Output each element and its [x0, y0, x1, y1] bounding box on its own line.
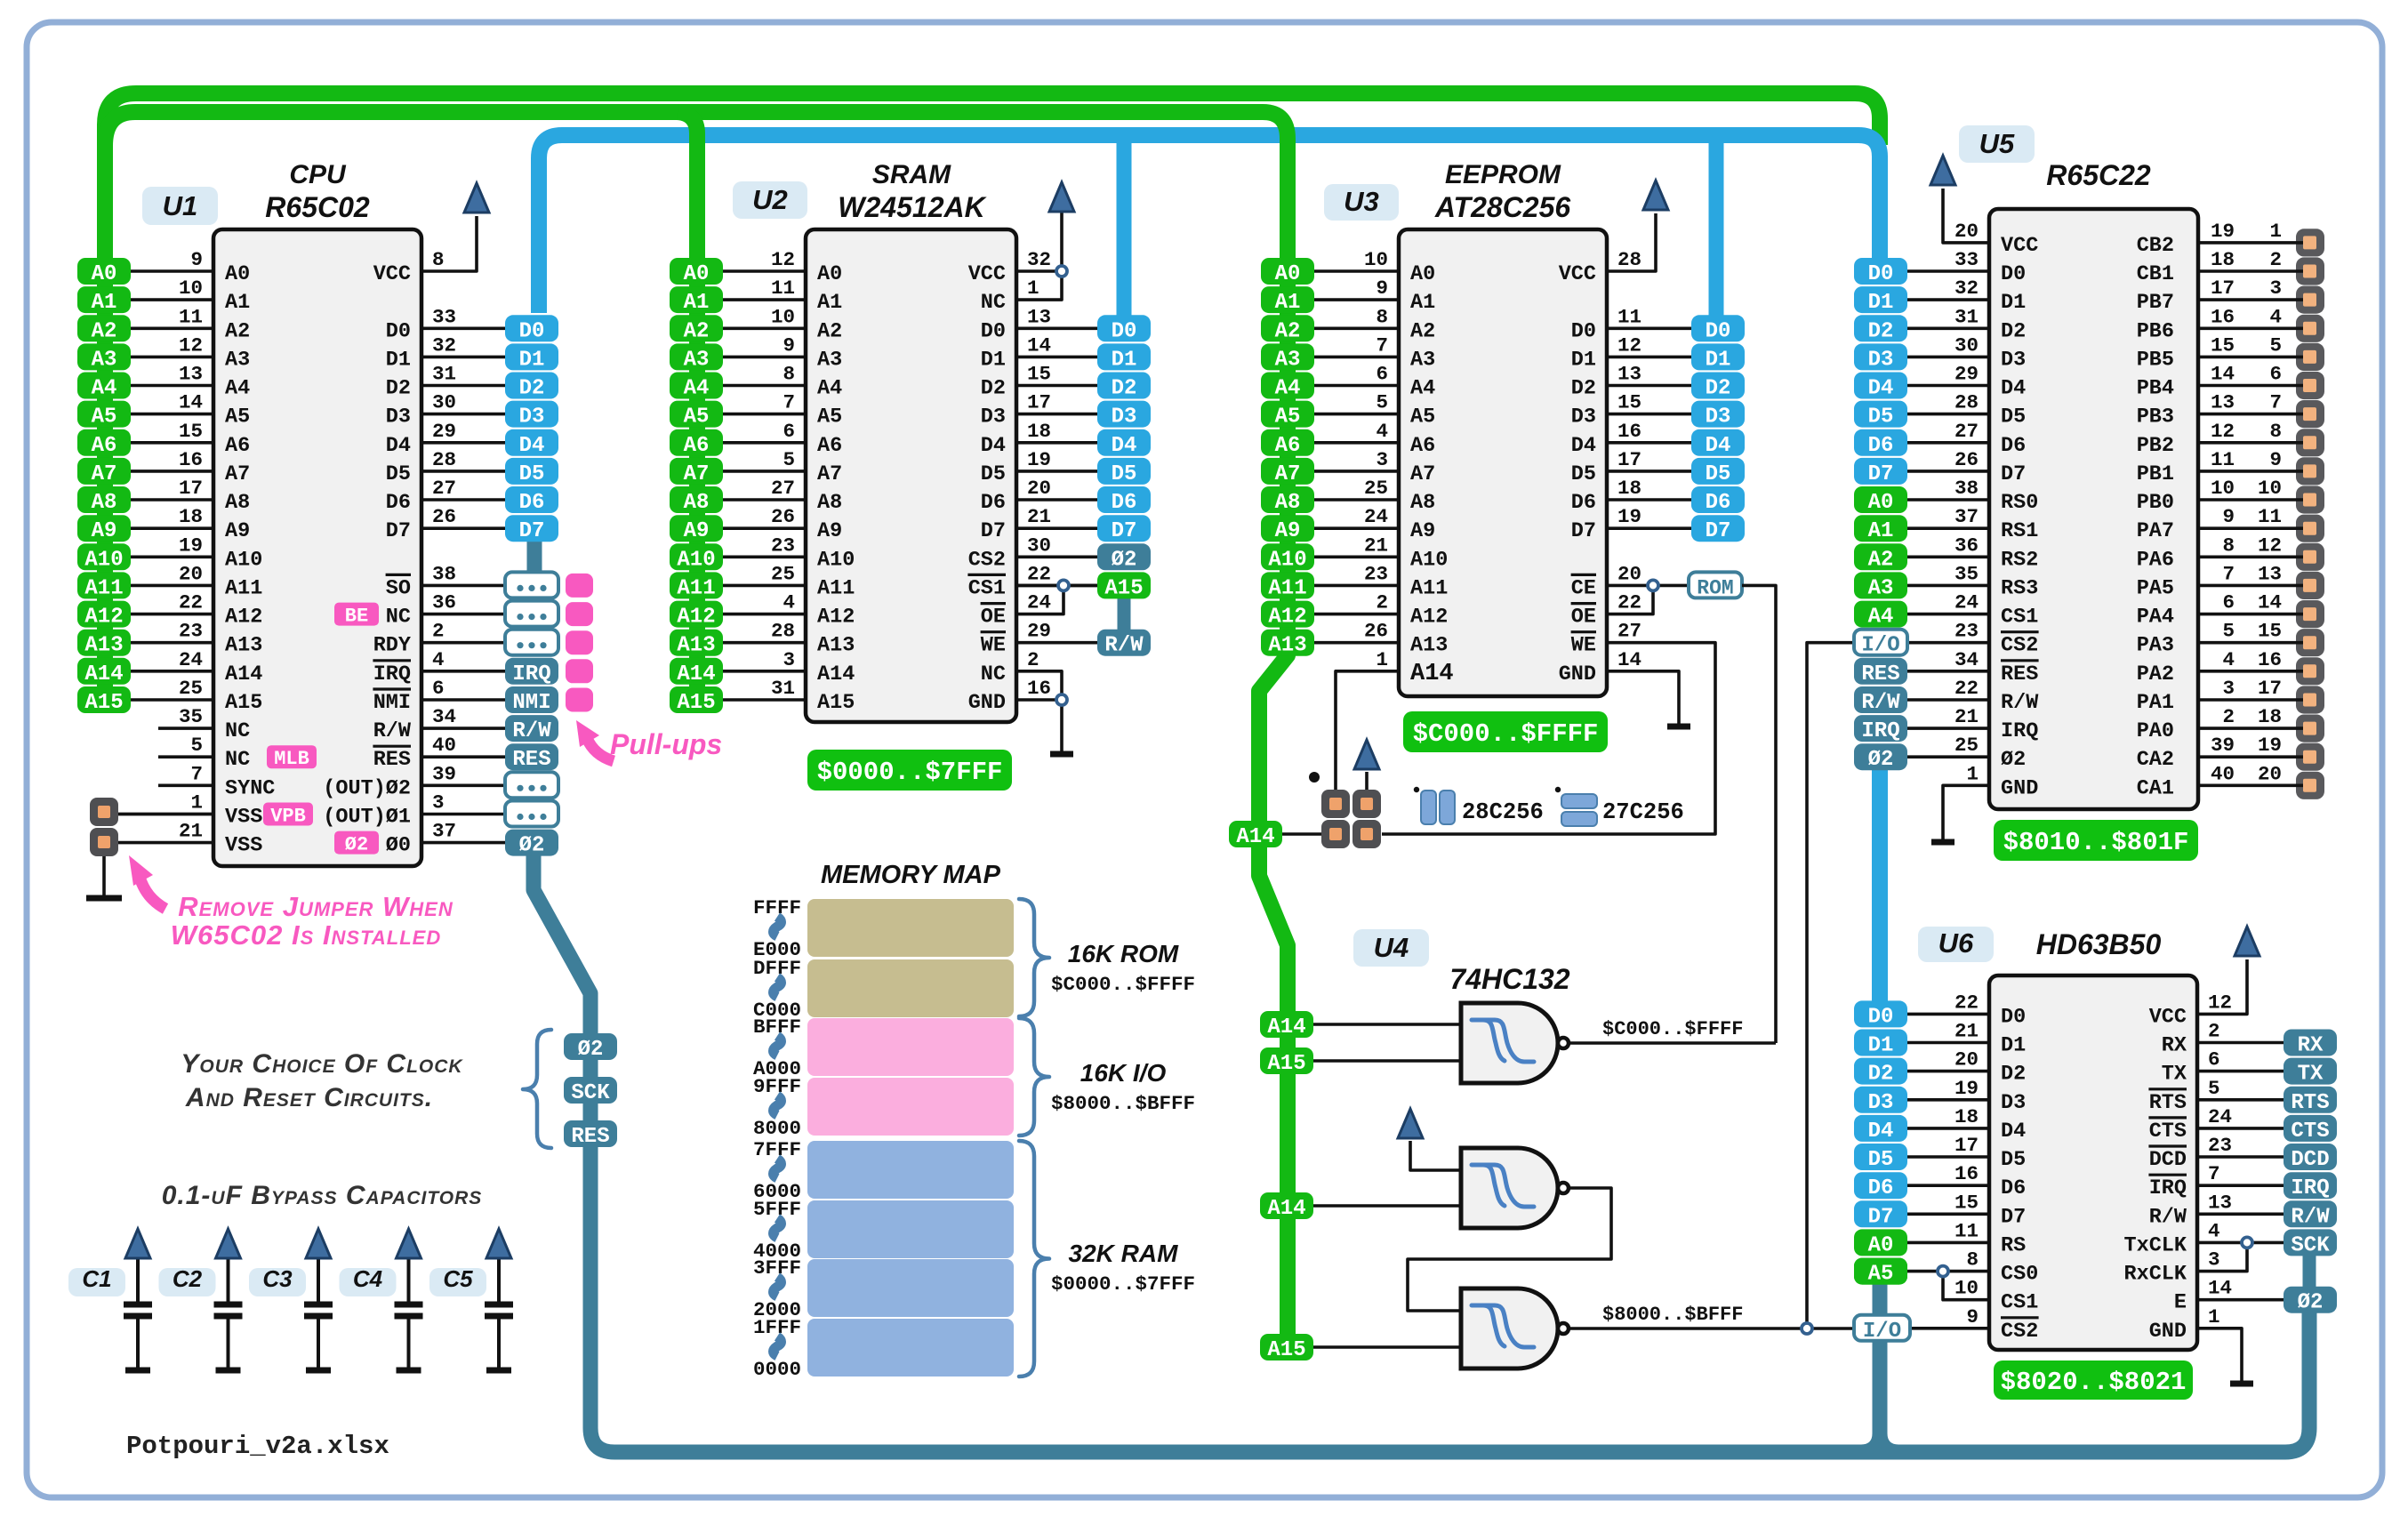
svg-text:CB1: CB1 — [2137, 262, 2174, 286]
svg-text:A8: A8 — [1410, 491, 1435, 515]
svg-text:13: 13 — [179, 363, 203, 386]
power arrow VCC (C1) — [125, 1229, 150, 1258]
U3 pin 23 A11 (left row) — [1314, 562, 1448, 600]
svg-text:PA7: PA7 — [2137, 519, 2174, 543]
node A14 tag (U4B input) — [1260, 1192, 1313, 1221]
U1 pin 22 A12 (left row) — [131, 591, 262, 630]
svg-text:A2: A2 — [225, 319, 250, 343]
U6 CS2 wire to I/O tag — [1910, 1327, 1989, 1330]
U2 pin 3 A14 (left row) — [723, 648, 855, 686]
U5 pin 9 PA7 / connector pin 11 — [2137, 505, 2316, 543]
svg-text:D4: D4 — [1868, 377, 1894, 401]
svg-text:5: 5 — [2222, 620, 2235, 643]
U5 pin 20 VCC (left row) — [1954, 220, 2038, 258]
svg-text:D0: D0 — [519, 319, 545, 343]
svg-text:18: 18 — [179, 505, 203, 528]
node A1 tag (U5) — [1854, 515, 1907, 543]
node D1 tag (U6) — [1854, 1030, 1907, 1058]
node O2 tag (clock section) — [564, 1033, 617, 1062]
svg-text:4: 4 — [783, 591, 795, 614]
svg-text:24: 24 — [179, 648, 203, 671]
svg-text:12: 12 — [771, 248, 795, 271]
U1 pin 11 A2 (left row) — [131, 305, 250, 343]
wire: data bus drop to U2 D0-D7 — [1117, 135, 1132, 320]
svg-text:38: 38 — [432, 562, 456, 585]
U2 pin 25 A11 (left row) — [723, 562, 855, 600]
U5 VCC net wire — [1943, 189, 1989, 243]
svg-text:FFFF: FFFF — [753, 896, 801, 919]
svg-text:A0: A0 — [225, 262, 250, 286]
U1 pin 32 D1 (right row) — [386, 333, 505, 372]
U2 pin 5 A7 (left row) — [723, 448, 842, 486]
svg-text:A15: A15 — [1267, 1052, 1305, 1076]
svg-text:19: 19 — [1027, 448, 1051, 471]
U5 pin 39 CA2 / connector pin 19 — [2137, 734, 2316, 772]
svg-text:9: 9 — [1966, 1305, 1979, 1328]
svg-text:19: 19 — [179, 534, 203, 557]
node A5 tag (U3) — [1261, 401, 1314, 429]
svg-text:36: 36 — [1954, 534, 1979, 557]
svg-text:3: 3 — [2208, 1248, 2220, 1272]
svg-text:20: 20 — [1027, 477, 1051, 500]
svg-text:A15: A15 — [84, 691, 123, 715]
node D7 tag (U2) — [1097, 515, 1151, 543]
svg-text:9: 9 — [2269, 448, 2282, 471]
svg-text:A6: A6 — [684, 434, 710, 458]
svg-text:VSS: VSS — [225, 806, 262, 830]
svg-text:D2: D2 — [386, 377, 411, 401]
power arrow VCC (U6) — [2235, 927, 2260, 956]
node A5 tag (U6) — [1854, 1258, 1907, 1287]
svg-text:D5: D5 — [1112, 462, 1137, 486]
U1 pin 39 (OUT)O2 (right row) — [323, 762, 505, 800]
U5 pin 23 CS2 (left row) — [1907, 620, 2039, 658]
U6 pin 22 D0 (left row) — [1907, 991, 2026, 1029]
svg-text:D4: D4 — [981, 434, 1006, 458]
svg-text:33: 33 — [1954, 248, 1979, 271]
svg-text:CA2: CA2 — [2137, 748, 2174, 772]
U5 pin 40 CA1 / connector pin 20 — [2137, 762, 2316, 800]
U5 pin 8 PA6 / connector pin 12 — [2137, 534, 2316, 572]
annotation arrow (pink) pointing to J1 — [140, 877, 165, 909]
gate U4A NAND 74HC132 — [1461, 1003, 1558, 1083]
svg-text:11: 11 — [2211, 448, 2235, 471]
memory map block DFFF-C000 — [807, 959, 1014, 1017]
svg-text:19: 19 — [1954, 1077, 1979, 1100]
gate U4A input wires — [1313, 1023, 1461, 1026]
svg-text:34: 34 — [1954, 648, 1979, 671]
U5 GND net wire — [1943, 785, 1989, 839]
svg-text:34: 34 — [432, 705, 456, 728]
U5 pin 6 PA4 / connector pin 14 — [2137, 591, 2316, 630]
option icon 28C256 (jumper vertical) — [1414, 787, 1419, 792]
node A6 tag (U3) — [1261, 429, 1314, 458]
U6 pin 23 DCD (right row) — [2148, 1134, 2284, 1172]
svg-text:25: 25 — [1364, 477, 1388, 500]
svg-text:D3: D3 — [1868, 348, 1894, 372]
U2 pin 32 VCC (right row) — [968, 248, 1051, 286]
svg-text:9: 9 — [190, 248, 203, 271]
svg-text:D6: D6 — [1868, 1176, 1894, 1200]
U2 reference designator label — [733, 181, 807, 219]
svg-text:$0000..$7FFF: $0000..$7FFF — [1051, 1272, 1195, 1296]
U3 address range value label — [1403, 711, 1608, 752]
node A15 tag (U1) — [77, 686, 131, 715]
svg-text:A15: A15 — [1104, 576, 1143, 600]
svg-text:D6: D6 — [386, 491, 411, 515]
svg-text:A3: A3 — [684, 348, 710, 372]
node A7 tag (U3) — [1261, 458, 1314, 486]
U2 pin 16 GND (right row) — [968, 677, 1051, 715]
junction on U2 VCC net — [1056, 266, 1067, 277]
U3 VCC net wire — [1607, 213, 1656, 271]
U3 pin 7 A3 (left row) — [1314, 333, 1435, 372]
U2 pin 17 D3 (right row) — [981, 391, 1097, 429]
node D3 tag (U2) — [1097, 401, 1151, 429]
svg-text:20: 20 — [1617, 562, 1641, 585]
U1 pin 5 NC (left row) — [158, 734, 250, 772]
svg-text:PA1: PA1 — [2137, 691, 2174, 715]
svg-text:13: 13 — [1617, 363, 1641, 386]
capacitor C1 label — [68, 1265, 125, 1296]
U1 VSS jumper wires — [106, 813, 213, 816]
svg-text:SRAM: SRAM — [872, 160, 951, 189]
svg-text:NMI: NMI — [512, 691, 550, 715]
U3 pin 11 D0 (right row) — [1571, 305, 1691, 343]
svg-text:15: 15 — [179, 420, 203, 443]
svg-text:A8: A8 — [817, 491, 842, 515]
svg-text:1: 1 — [190, 791, 203, 815]
node D7 tag (U5) — [1854, 458, 1907, 486]
svg-text:A5: A5 — [1275, 405, 1301, 429]
wire: ROM net to U4 gate 1 output — [1742, 585, 1776, 1043]
svg-text:NC: NC — [225, 748, 250, 772]
U6 register range value label — [1994, 1360, 2193, 1400]
node A15 tag (U2 CS1) — [1097, 572, 1151, 600]
power arrow VCC (U5) — [1930, 156, 1955, 185]
U1 pin 37 O0 (right row) — [386, 820, 505, 858]
svg-text:(OUT)Ø2: (OUT)Ø2 — [323, 776, 411, 800]
svg-text:32K RAM: 32K RAM — [1069, 1240, 1179, 1267]
svg-text:E: E — [2174, 1291, 2187, 1315]
U6 CS0/CS1 net wires from A5 — [1907, 1270, 1989, 1273]
svg-text:TX: TX — [2298, 1063, 2324, 1087]
svg-text:8: 8 — [783, 363, 795, 386]
svg-text:8: 8 — [432, 248, 445, 271]
U2 pin 10 A2 (left row) — [723, 305, 842, 343]
svg-text:11: 11 — [1617, 305, 1641, 328]
U1 pin 13 A4 (left row) — [131, 363, 250, 401]
node D6 tag (U1) — [505, 486, 558, 515]
U5 pin 38 RS0 (left row) — [1907, 477, 2038, 515]
svg-text:And Reset Circuits.: And Reset Circuits. — [185, 1083, 433, 1112]
svg-text:19: 19 — [2211, 220, 2235, 243]
node D7 tag (U6) — [1854, 1200, 1907, 1229]
node I/O tag (U6 CS2) — [1854, 1315, 1910, 1344]
svg-text:RS3: RS3 — [2001, 576, 2038, 600]
capacitor C3 — [304, 1259, 333, 1369]
power arrow VCC (U3) — [1643, 181, 1668, 210]
node A6 tag (U1) — [77, 429, 131, 458]
junction on U6 CS0 net — [1938, 1266, 1948, 1277]
svg-text:A6: A6 — [1275, 434, 1301, 458]
svg-text:32: 32 — [432, 333, 456, 357]
svg-text:D3: D3 — [1112, 405, 1137, 429]
U1 pin 14 A5 (left row) — [131, 391, 250, 429]
node D2 tag (U5) — [1854, 315, 1907, 343]
node O2 tag (U1) — [505, 830, 558, 858]
power arrow VCC (U2) — [1049, 182, 1074, 212]
svg-text:Ø2: Ø2 — [519, 834, 545, 858]
node A8 tag (U3) — [1261, 486, 1314, 515]
svg-text:A1: A1 — [817, 291, 842, 315]
node pull-up option tag (U1 (OUT)Z1) — [505, 801, 558, 827]
svg-text:A13: A13 — [817, 634, 855, 658]
node A1 tag (U1) — [77, 286, 131, 315]
svg-text:5: 5 — [783, 448, 795, 471]
U1 pin 26 D7 (right row) — [386, 505, 505, 543]
svg-text:A5: A5 — [225, 405, 250, 429]
svg-text:12: 12 — [2211, 420, 2235, 443]
svg-text:13: 13 — [2258, 562, 2282, 585]
svg-text:Your Choice Of Clock: Your Choice Of Clock — [181, 1049, 463, 1079]
svg-text:32: 32 — [1954, 277, 1979, 300]
node IRQ tag (U1) — [505, 658, 558, 686]
U5 pin 31 D2 (left row) — [1907, 305, 2026, 343]
node D0 tag (U5) — [1854, 258, 1907, 286]
ground symbol (U5) — [1931, 839, 1954, 846]
svg-text:NC: NC — [386, 606, 411, 630]
junction on U6 TxCLK net — [2242, 1237, 2252, 1248]
jumper J1 (remove when W65C02 installed) — [90, 798, 118, 856]
svg-text:7: 7 — [2222, 562, 2235, 585]
capacitor C5 — [485, 1259, 513, 1369]
svg-text:29: 29 — [1027, 620, 1051, 643]
svg-text:R/W: R/W — [1104, 634, 1144, 658]
svg-text:CE: CE — [1571, 576, 1596, 600]
node A8 tag (U2) — [670, 486, 723, 515]
svg-text:GND: GND — [968, 691, 1006, 715]
IC U5 VIA R65C22 body — [1989, 209, 2198, 809]
svg-text:A6: A6 — [817, 434, 842, 458]
svg-text:10: 10 — [1954, 1277, 1979, 1300]
svg-text:CS1: CS1 — [968, 576, 1006, 600]
svg-text:25: 25 — [771, 562, 795, 585]
bottom bus fillet right of I/O vertical — [1888, 1433, 1899, 1445]
svg-text:A14: A14 — [1267, 1015, 1305, 1039]
svg-text:A5: A5 — [684, 405, 710, 429]
svg-text:CS1: CS1 — [2001, 1291, 2038, 1315]
svg-text:14: 14 — [179, 391, 203, 414]
svg-text:A8: A8 — [684, 491, 710, 515]
U1 pin 38 SO (right row) — [386, 562, 505, 600]
U5 pin 37 RS1 (left row) — [1907, 505, 2038, 543]
svg-text:3FFF: 3FFF — [753, 1256, 801, 1280]
node pull-up option tag (U1 NC) — [505, 601, 558, 627]
wire: green vertical behind U2 address tags — [689, 258, 705, 711]
pull-up resistor pack squares (pink) — [566, 574, 593, 598]
svg-text:D1: D1 — [1868, 291, 1894, 315]
svg-text:DCD: DCD — [2291, 1148, 2329, 1172]
U1 pin label BE (pink) — [334, 603, 379, 628]
svg-text:D5: D5 — [1868, 1148, 1894, 1172]
svg-text:7: 7 — [783, 391, 795, 414]
svg-text:16K ROM: 16K ROM — [1068, 940, 1179, 967]
U5 pin 13 PB3 / connector pin 7 — [2137, 391, 2316, 429]
svg-text:IRQ: IRQ — [1861, 719, 1899, 743]
U5 pin 17 PB7 / connector pin 3 — [2137, 277, 2316, 315]
svg-text:A10: A10 — [817, 548, 855, 572]
ground symbol (U6) — [2230, 1381, 2253, 1387]
svg-text:27: 27 — [1617, 620, 1641, 643]
node D7 tag (U1) — [505, 515, 558, 543]
U6 VCC net wire — [2197, 959, 2247, 1014]
memory map block 9FFF-8000 — [807, 1078, 1014, 1136]
svg-text:VCC: VCC — [373, 262, 411, 286]
node A8 tag (U1) — [77, 486, 131, 515]
svg-text:Pull-ups: Pull-ups — [610, 728, 722, 760]
svg-text:D5: D5 — [1706, 462, 1731, 486]
svg-text:CA1: CA1 — [2137, 776, 2174, 800]
node ROM tag (U3 chip select) — [1689, 572, 1742, 599]
svg-text:WE: WE — [981, 634, 1006, 658]
svg-text:A7: A7 — [1275, 462, 1301, 486]
svg-text:5FFF: 5FFF — [753, 1198, 801, 1221]
svg-text:20: 20 — [2258, 762, 2282, 785]
svg-text:23: 23 — [771, 534, 795, 557]
svg-text:A0: A0 — [684, 262, 710, 286]
svg-text:7: 7 — [1376, 333, 1388, 357]
svg-text:R/W: R/W — [1861, 691, 1900, 715]
svg-text:35: 35 — [1954, 562, 1979, 585]
U6 pin 3 RxCLK (right row) — [2123, 1248, 2219, 1287]
svg-text:VCC: VCC — [1559, 262, 1596, 286]
svg-text:SO: SO — [386, 576, 411, 600]
svg-text:10: 10 — [771, 305, 795, 328]
svg-text:D0: D0 — [2001, 1005, 2026, 1029]
svg-text:A1: A1 — [1868, 519, 1894, 543]
svg-text:RX: RX — [2298, 1034, 2324, 1058]
node IRQ tag (U5) — [1854, 715, 1907, 743]
svg-text:RS: RS — [2001, 1233, 2026, 1257]
node RES tag (clock section) — [564, 1120, 617, 1149]
svg-text:2: 2 — [1027, 648, 1039, 671]
svg-text:A14: A14 — [1267, 1197, 1305, 1221]
bottom bus fillet left of I/O vertical — [1861, 1433, 1873, 1445]
svg-text:A15: A15 — [677, 691, 715, 715]
U1 pin 16 A7 (left row) — [131, 448, 250, 486]
U2 pin 18 D4 (right row) — [981, 420, 1097, 458]
U1 pin 7 SYNC (left row) — [158, 762, 275, 800]
svg-text:39: 39 — [2211, 734, 2235, 757]
node A6 tag (U2) — [670, 429, 723, 458]
U1 pin 29 D4 (right row) — [386, 420, 505, 458]
svg-text:5: 5 — [1376, 391, 1388, 414]
svg-text:4: 4 — [2208, 1219, 2220, 1242]
U2 pin 1 NC (right row) — [981, 277, 1039, 315]
svg-text:A14: A14 — [1410, 661, 1454, 687]
node A4 tag (U1) — [77, 373, 131, 401]
node D6 tag (U6) — [1854, 1172, 1907, 1200]
node D2 tag (U3) — [1691, 373, 1745, 401]
U3 pin 1 A14 (left row) — [1376, 648, 1453, 687]
svg-text:RES: RES — [373, 748, 411, 772]
svg-text:16: 16 — [2258, 648, 2282, 671]
U2 pin 2 NC (right row) — [981, 648, 1039, 686]
svg-text:5: 5 — [2208, 1077, 2220, 1100]
node D5 tag (U1) — [505, 458, 558, 486]
svg-text:D7: D7 — [519, 519, 545, 543]
svg-text:Ø2: Ø2 — [1868, 748, 1894, 772]
svg-text:D0: D0 — [1571, 319, 1596, 343]
wire: A14 tag to jumper J2 — [1282, 832, 1325, 836]
svg-text:PA5: PA5 — [2137, 576, 2174, 600]
U3 pin 17 D5 (right row) — [1571, 448, 1691, 486]
node A12 tag (U3) — [1261, 601, 1314, 630]
svg-text:C5: C5 — [443, 1265, 473, 1292]
U1 pin 2 RDY (right row) — [373, 620, 505, 658]
U2 pin 14 D1 (right row) — [981, 333, 1097, 372]
memory map brace 32K RAM — [1019, 1141, 1049, 1377]
svg-text:A12: A12 — [225, 606, 262, 630]
svg-text:9FFF: 9FFF — [753, 1075, 801, 1098]
wire: teal stub A15 to R/W tag at U2 — [1118, 598, 1131, 631]
svg-text:4: 4 — [1376, 420, 1388, 443]
svg-text:RES: RES — [512, 748, 550, 772]
svg-text:40: 40 — [432, 734, 456, 757]
svg-text:A0: A0 — [92, 262, 117, 286]
svg-text:A9: A9 — [684, 519, 710, 543]
connector CN1 20-pin header (U5 ports) — [2296, 229, 2324, 256]
svg-text:U2: U2 — [752, 184, 788, 215]
svg-text:D3: D3 — [2001, 1091, 2026, 1115]
U2 pin 6 A6 (left row) — [723, 420, 842, 458]
svg-text:(OUT)Ø1: (OUT)Ø1 — [323, 806, 411, 830]
svg-text:D3: D3 — [1571, 405, 1596, 429]
svg-text:A11: A11 — [677, 576, 715, 600]
svg-text:24: 24 — [2208, 1105, 2232, 1128]
svg-text:A3: A3 — [1410, 348, 1435, 372]
svg-text:22: 22 — [1027, 562, 1051, 585]
svg-text:3: 3 — [783, 648, 795, 671]
svg-text:D7: D7 — [2001, 462, 2026, 486]
svg-text:38: 38 — [1954, 477, 1979, 500]
svg-text:24: 24 — [1954, 591, 1979, 614]
U3 pin 5 A5 (left row) — [1314, 391, 1435, 429]
wire: teal stub A5 to I/O tag at U6 — [1873, 1282, 1888, 1316]
svg-text:D7: D7 — [1112, 519, 1137, 543]
U1 pin 12 A3 (left row) — [131, 333, 250, 372]
bullet marker at J2 — [1309, 772, 1320, 783]
svg-text:2: 2 — [2222, 705, 2235, 728]
U5 pin 26 D7 (left row) — [1907, 448, 2026, 486]
svg-text:12: 12 — [1617, 333, 1641, 357]
svg-text:23: 23 — [2208, 1134, 2232, 1157]
U3 pin 10 A0 (left row) — [1314, 248, 1435, 286]
ground symbol (C3) — [306, 1368, 331, 1374]
svg-text:MEMORY MAP: MEMORY MAP — [821, 861, 1001, 889]
node D4 tag (U1) — [505, 429, 558, 458]
U3 pin 6 A4 (left row) — [1314, 363, 1435, 401]
U1 reference designator label — [142, 187, 218, 225]
svg-text:I/O: I/O — [1863, 1320, 1901, 1344]
wire: green vertical behind U3 address tags continuing to U4 gate inputs — [1259, 258, 1288, 1344]
wire: teal stub SCK to phi2 tag at U6 — [2303, 1254, 2316, 1289]
U3 pin 22 OE (right row) — [1571, 591, 1641, 630]
svg-text:A11: A11 — [225, 576, 262, 600]
svg-text:A2: A2 — [1275, 319, 1301, 343]
node R/W tag (U1) — [505, 715, 558, 743]
